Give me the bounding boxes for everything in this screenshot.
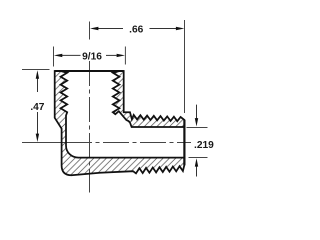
svg-text:.47: .47 [30, 102, 44, 113]
svg-text:.219: .219 [194, 140, 214, 151]
svg-text:9/16: 9/16 [82, 51, 102, 62]
svg-text:.66: .66 [129, 25, 143, 36]
